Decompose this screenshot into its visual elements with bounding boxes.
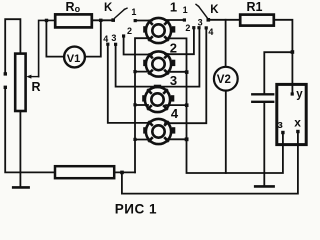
wire coil2 lower-left to rail	[135, 71, 150, 73]
rheostat slider arrow	[29, 76, 39, 78]
wire V2 top branch	[225, 20, 227, 67]
svg-text:R: R	[32, 80, 41, 94]
wire rheostat bottom stem	[19, 111, 21, 186]
wire coil1 to contact1-K2	[165, 19, 184, 21]
coil L2	[143, 51, 175, 76]
svg-text:4: 4	[171, 106, 179, 121]
junction rail-right coil4	[185, 137, 189, 141]
wire coil3 lower-left to rail	[135, 104, 148, 106]
contact 3 of K1	[114, 43, 117, 46]
contact 3 of K2	[197, 26, 200, 29]
wire R1 right down	[274, 20, 293, 93]
voltmeter V1	[64, 47, 85, 68]
svg-text:x: x	[294, 116, 301, 130]
svg-text:3: 3	[170, 73, 177, 88]
wire x terminal down, bottom run, up to resistor junction	[122, 133, 298, 194]
svg-text:1: 1	[183, 5, 188, 15]
wire coil2 to contact2-K2	[165, 29, 194, 54]
svg-text:з: з	[277, 119, 283, 131]
junction dot bottom resistor right	[120, 171, 124, 175]
wire V1 right branch	[85, 22, 101, 57]
wire coil2 lower-right to rail	[167, 71, 187, 73]
switch K2 pivot	[207, 18, 211, 22]
contact 2 of K2	[192, 26, 195, 29]
wire contact2-K1 to coil 2	[124, 38, 152, 55]
wire coil1 lower-right to rail	[167, 38, 187, 139]
switch K2 blade	[199, 6, 208, 17]
coil L1	[143, 18, 175, 43]
svg-text:3: 3	[111, 33, 116, 43]
junction dot right of R0 (V1 tap)	[99, 19, 102, 22]
svg-text:3: 3	[198, 17, 203, 27]
wire pivot K2 to R1	[210, 19, 240, 21]
svg-text:y: y	[296, 88, 303, 100]
contact 4 of K2	[205, 26, 208, 29]
svg-text:o: o	[75, 4, 81, 14]
wire V2 bottom to bus	[225, 91, 227, 173]
terminal dot upper (plug)	[4, 72, 7, 75]
contact 1 of K2	[183, 18, 186, 21]
svg-text:4: 4	[103, 34, 108, 44]
svg-text:РИС 1: РИС 1	[115, 201, 157, 216]
ground right bar	[255, 185, 273, 188]
junction rail-left coil4	[133, 138, 136, 141]
wire coil4 lower-left to rail	[135, 139, 150, 141]
x terminal dot	[296, 130, 299, 133]
junction rail-left coil2	[133, 70, 136, 73]
wire left vertical lower segment	[5, 89, 55, 172]
junction dot left of R0 (V1 tap)	[45, 19, 48, 22]
svg-text:2: 2	[127, 26, 132, 36]
wire left vertical upper segment	[5, 19, 20, 72]
wire contact1-K1 to coil 1	[137, 20, 152, 22]
coil L3	[142, 85, 174, 112]
wire coil3 lower-right to rail	[166, 104, 187, 106]
switch K1 blade	[115, 9, 125, 18]
junction rail-right coil2	[185, 70, 189, 74]
svg-text:R: R	[66, 0, 75, 14]
wire R0 right to switch	[92, 19, 112, 21]
voltmeter V2	[214, 67, 238, 91]
wire V1 left branch	[46, 22, 64, 57]
resistor R1	[240, 15, 274, 26]
switch K1 pivot	[111, 18, 115, 22]
wire coil4 lower-right to rail	[167, 138, 187, 140]
svg-text:R1: R1	[247, 0, 263, 14]
wire resistor right to rail-left	[114, 171, 135, 173]
svg-text:2: 2	[170, 40, 177, 55]
capacitor C plate top	[252, 93, 273, 95]
svg-text:V1: V1	[67, 53, 80, 65]
wire cap top branch	[264, 52, 292, 93]
svg-text:V2: V2	[217, 74, 231, 86]
junction rail-right coil3	[185, 103, 189, 107]
oscilloscope box	[277, 84, 306, 144]
svg-text:K: K	[104, 2, 113, 14]
svg-text:1: 1	[131, 7, 136, 17]
ground left bar	[13, 186, 28, 189]
junction dot cap branch	[291, 50, 295, 54]
svg-text:1: 1	[170, 0, 177, 15]
coil L4	[143, 119, 175, 144]
capacitor C plate bottom	[252, 101, 273, 103]
wire slider to R0	[39, 20, 55, 76]
svg-text:K: K	[210, 4, 219, 16]
svg-text:2: 2	[185, 23, 190, 33]
з terminal dot	[281, 131, 284, 134]
y terminal dot	[291, 92, 294, 95]
junction rail-left coil3	[133, 103, 136, 106]
svg-text:4: 4	[208, 27, 213, 37]
resistor R0	[55, 14, 92, 27]
contact 1 of K1	[134, 19, 137, 22]
wire cap bottom to ground	[263, 103, 265, 186]
rheostat R	[15, 54, 25, 111]
terminal dot lower (plug)	[4, 86, 7, 89]
wire coil1 lower-left to rail	[135, 38, 150, 172]
wire contact4-K1 to coil 4	[108, 46, 150, 123]
wire contact3-K1 across coil3 top to contact3-K2	[116, 29, 200, 86]
contact 4 of K1	[106, 43, 109, 46]
contact 2 of K1	[122, 34, 125, 37]
resistor bottom (ballast)	[55, 166, 114, 178]
bus: rail-right down and along bottom to з	[187, 134, 283, 173]
wire coil4 to contact4-K2	[165, 29, 206, 123]
